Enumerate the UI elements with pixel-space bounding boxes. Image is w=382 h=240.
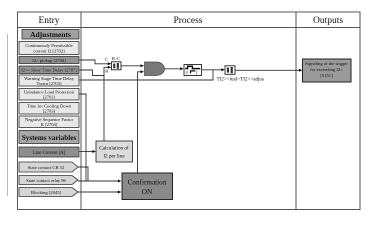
svg-text:State contact relay 86: State contact relay 86 <box>26 178 66 183</box>
svg-text:Systems variables: Systems variables <box>22 134 77 142</box>
box Systems variables <box>19 131 79 144</box>
svg-text:Signaling of the trigger: Signaling of the trigger <box>305 61 348 66</box>
box Unbalance Load Protection [2701] <box>19 89 79 101</box>
wire calculation box up to comparator input B <box>104 67 109 141</box>
wire State contact CB 52 to junction <box>78 167 88 181</box>
wire timer to comparator 2 <box>202 69 223 71</box>
svg-text:I2>> Slow Time Delay [2707]: I2>> Slow Time Delay [2707] <box>21 68 77 73</box>
svg-text:B: B <box>105 69 108 74</box>
arrow box Blocking [2045] <box>19 188 78 197</box>
box Signaling of the trigger for exceeding I2> [5151] <box>303 59 352 82</box>
wire relay 86 joint into Confirmation ON input 1 <box>78 180 119 182</box>
svg-text:I2 per line: I2 per line <box>103 154 125 160</box>
box Time for Cooling Down [2703] <box>19 103 79 115</box>
svg-text:Blocking [2045]: Blocking [2045] <box>31 190 62 195</box>
svg-text:Adjustments: Adjustments <box>30 30 71 39</box>
svg-text:for exceeding I2>: for exceeding I2> <box>310 67 343 72</box>
table outer border <box>18 12 361 210</box>
svg-text:ON: ON <box>142 188 153 196</box>
wire comparator 2 to output box <box>235 69 300 71</box>
arrow box State contact CB 52 <box>19 162 78 172</box>
wire AND gate to timer <box>165 68 182 70</box>
comparator U1 B>C <box>112 56 122 70</box>
svg-text:Process: Process <box>173 16 202 26</box>
column divider Entry/Process <box>80 12 82 210</box>
wire Line Current to Calculation box <box>80 151 94 153</box>
wire Blocking to Confirmation ON input 2 <box>78 191 119 193</box>
box Warning Stage Time Delay Twarn [2703] <box>19 75 79 86</box>
svg-text:I2> pickup [2704]: I2> pickup [2704] <box>32 58 66 63</box>
box Calculation of I2 per line <box>96 141 133 162</box>
box Negative Sequence Factor K [2704] <box>19 116 79 128</box>
svg-text:Line Current [A]: Line Current [A] <box>33 151 66 156</box>
box Adjustments <box>22 30 79 40</box>
box Continuously Permissible current I2 [2702] <box>19 42 79 55</box>
column divider Process/Outputs <box>295 12 297 210</box>
timer T-warn <box>184 65 202 76</box>
box I2> pickup [2704] <box>19 57 79 64</box>
wire I2>> Slow Time Delay joining B net <box>80 70 105 76</box>
left page-edge artifact <box>7 34 8 196</box>
svg-text:Entry: Entry <box>38 16 59 26</box>
svg-text:Outputs: Outputs <box>313 16 343 26</box>
wire Unbalance Load Protection down to confirmation net <box>80 94 87 181</box>
svg-text:TI2>>real>TI2>>adjus: TI2>>real>TI2>>adjus <box>217 76 264 82</box>
box I2>> Slow Time Delay [2707] <box>19 66 79 74</box>
table header separator <box>18 27 361 29</box>
svg-text:K [2704]: K [2704] <box>41 122 58 127</box>
svg-text:Confirmation: Confirmation <box>128 179 167 187</box>
svg-text:State contact CB 52: State contact CB 52 <box>28 165 65 170</box>
wire Twarn to timer output net <box>80 70 214 80</box>
svg-text:B>C: B>C <box>112 56 120 61</box>
svg-text:C: C <box>105 57 108 62</box>
comparator U2 <box>225 66 235 75</box>
wire Confirmation ON up to AND gate lower input <box>138 72 142 173</box>
wire I2> pickup to comparator input C <box>80 60 110 64</box>
AND gate <box>145 62 165 76</box>
box Line Current [A] <box>19 147 79 157</box>
wire comparator to AND gate <box>121 65 142 67</box>
svg-text:[5151]: [5151] <box>320 73 333 78</box>
arrow box State contact relay 86 <box>19 176 78 185</box>
svg-text:Twarn [2703]: Twarn [2703] <box>36 81 62 86</box>
svg-text:[2701]: [2701] <box>43 95 56 100</box>
svg-text:current I2 [2702]: current I2 [2702] <box>33 49 65 54</box>
box Confirmation ON <box>122 173 173 200</box>
svg-text:Continuously Permissible: Continuously Permissible <box>25 43 72 48</box>
svg-text:Calculation of: Calculation of <box>99 145 129 152</box>
svg-text:[2703]: [2703] <box>43 109 56 114</box>
